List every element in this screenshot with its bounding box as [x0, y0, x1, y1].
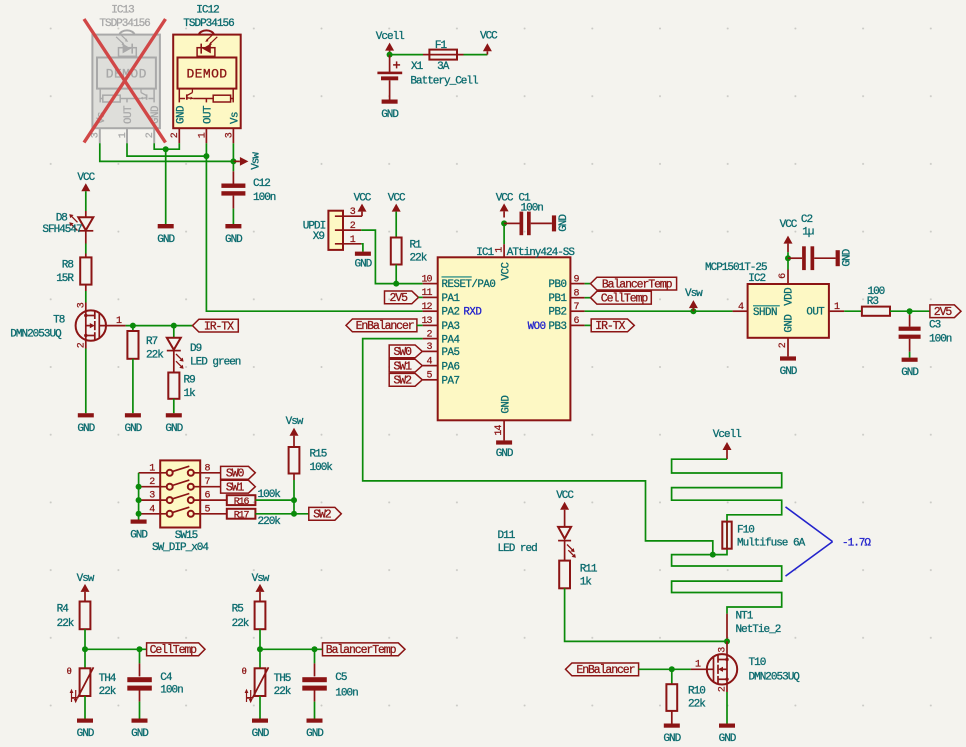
thermistor TH4 22k	[67, 667, 117, 703]
svg-text:Vsw: Vsw	[77, 573, 95, 585]
svg-text:CellTemp: CellTemp	[601, 293, 649, 306]
svg-text:GND: GND	[500, 396, 512, 414]
svg-text:GND: GND	[77, 728, 95, 740]
svg-text:22k: 22k	[146, 350, 164, 362]
svg-text:1k: 1k	[184, 388, 197, 400]
svg-text:GND: GND	[719, 733, 737, 745]
svg-text:TH4: TH4	[99, 673, 117, 685]
junction C3	[907, 308, 913, 314]
resistor R10 22k	[666, 684, 706, 711]
svg-text:GND: GND	[131, 728, 149, 740]
svg-text:PA6: PA6	[442, 361, 460, 373]
SW15 pole 2-7	[139, 477, 221, 490]
ground (R9)	[165, 413, 183, 435]
DNP red cross over IC13	[84, 19, 166, 143]
junction TH4	[82, 646, 88, 652]
ground (R7)	[124, 413, 142, 435]
svg-text:TSDP34156: TSDP34156	[99, 18, 150, 30]
svg-text:C4: C4	[160, 672, 173, 684]
svg-text:PB2: PB2	[549, 307, 567, 319]
junction R7 tap	[130, 323, 136, 329]
svg-text:X9: X9	[313, 231, 325, 243]
resistor R8 15R	[56, 257, 91, 284]
svg-text:1k: 1k	[580, 576, 593, 588]
svg-text:IC13: IC13	[111, 5, 134, 17]
IC2 GND pin 2	[778, 338, 789, 357]
IC IC1 ATtiny424-SS body	[438, 247, 576, 421]
svg-text:NT1: NT1	[736, 611, 754, 623]
svg-text:PA3: PA3	[442, 321, 460, 333]
IC1 pin 11 PA1	[421, 288, 459, 305]
svg-text:SHDN: SHDN	[753, 307, 777, 319]
wire C12 bottom	[232, 196, 234, 209]
svg-text:-1.7Ω: -1.7Ω	[842, 537, 871, 549]
svg-text:CellTemp: CellTemp	[150, 644, 198, 657]
junction C5	[312, 646, 318, 652]
wire SW15 left bus to ground	[138, 473, 140, 520]
svg-text:NetTie_2: NetTie_2	[736, 624, 781, 636]
wire GND drop	[165, 149, 167, 224]
wire IC13 pin3 to Vsw (Vs net)	[100, 143, 234, 161]
IC12 pin 1 OUT	[205, 128, 207, 143]
wire R15 down the bus	[293, 474, 295, 481]
junction R1 bottom	[393, 281, 399, 287]
ground (UPDI)	[354, 252, 372, 271]
svg-text:2V5: 2V5	[389, 292, 408, 305]
wire OUT to R3	[844, 310, 862, 312]
svg-text:IC12: IC12	[196, 5, 219, 17]
wire R10 drop	[671, 669, 673, 684]
svg-text:VCC: VCC	[556, 490, 574, 502]
transistor T10 DMN2053UQ	[691, 641, 800, 692]
capacitor C3 100n	[899, 320, 952, 346]
svg-text:RXD: RXD	[463, 307, 481, 319]
svg-text:SW1: SW1	[226, 482, 245, 495]
svg-text:R3: R3	[867, 296, 879, 308]
IC2 SHDN pin 4	[733, 302, 748, 313]
junction Vcell	[387, 52, 393, 58]
svg-text:BalancerTemp: BalancerTemp	[602, 278, 673, 291]
svg-text:SW0: SW0	[393, 346, 412, 359]
svg-text:Vsw: Vsw	[252, 573, 270, 585]
svg-text:SW15: SW15	[175, 530, 198, 542]
resistor R5 22k	[232, 602, 266, 630]
junction R10 tap	[669, 666, 675, 672]
power symbol VCC (D11)	[556, 490, 574, 527]
resistor R9 1k	[168, 373, 196, 400]
svg-text:11: 11	[421, 288, 432, 299]
ground (left of C12)	[157, 224, 175, 246]
transistor T8 DMN2053UQ	[10, 302, 125, 348]
wire R7 drop	[132, 326, 134, 331]
resistor R11 1k	[559, 561, 598, 589]
ground (C1, sideways)	[552, 214, 570, 232]
wire OUT net down to PA2 row	[206, 143, 422, 311]
junction C1	[501, 220, 507, 226]
svg-text:GND: GND	[354, 259, 372, 271]
svg-text:IC2: IC2	[748, 273, 765, 285]
wire R9 to ground	[173, 399, 175, 413]
power symbol Vcell (balancer)	[713, 429, 741, 459]
wire R5 to BalancerTemp node	[259, 629, 261, 649]
svg-text:VCC: VCC	[354, 193, 372, 205]
svg-text:SFH4547: SFH4547	[42, 224, 82, 236]
global label SW2 (PA7)	[389, 373, 422, 387]
global label IR-TX (PB3)	[585, 319, 635, 333]
svg-text:R8: R8	[62, 259, 74, 271]
junction Vsw on PB2 net	[690, 308, 696, 314]
wire TH4 top	[84, 649, 86, 668]
svg-text:PA5: PA5	[442, 347, 460, 359]
resistor R1 22k	[391, 238, 428, 265]
svg-text:GND: GND	[901, 367, 919, 379]
svg-text:R9: R9	[184, 375, 196, 387]
IC1 pin 8 PB1	[549, 289, 585, 306]
IC IC13 TSDP34156 (DNP, greyed)	[91, 5, 163, 144]
power symbol Vsw (right-pointing)	[233, 152, 262, 170]
svg-text:GND: GND	[77, 423, 95, 435]
svg-text:PA2: PA2	[442, 307, 460, 319]
IC13 pin 1 OUT	[126, 128, 128, 143]
power symbol VCC (UPDI pin3)	[354, 193, 372, 217]
svg-text:LED green: LED green	[190, 356, 241, 368]
ground (IC2)	[780, 356, 798, 378]
power symbol Vsw (R15)	[286, 416, 304, 447]
svg-text:GND: GND	[663, 733, 681, 745]
svg-text:SW0: SW0	[226, 468, 245, 481]
svg-text:1µ: 1µ	[802, 227, 814, 239]
junction OUT net	[203, 153, 209, 159]
LED D9 green	[167, 338, 241, 369]
IC2 OUT pin 1	[829, 302, 844, 313]
capacitor C2 1u	[788, 214, 836, 270]
wire R7 to ground	[132, 359, 134, 413]
svg-text:22k: 22k	[232, 618, 250, 630]
global label SW2 (R17)	[309, 507, 342, 521]
IC IC2 MCP1501T-25 body	[705, 262, 829, 338]
global label 2V5 (PA1)	[385, 291, 423, 305]
svg-text:10: 10	[421, 274, 432, 285]
IC1 pin 2 PA4	[423, 329, 460, 346]
power symbol VCC (above D8)	[77, 172, 95, 191]
wire PA4 feed to balancer	[363, 339, 713, 555]
svg-text:VDD: VDD	[784, 288, 796, 306]
svg-text:GND: GND	[157, 234, 175, 246]
svg-text:VCC: VCC	[500, 262, 512, 281]
svg-text:Vcell: Vcell	[376, 31, 404, 43]
svg-text:GND: GND	[306, 728, 324, 740]
wire R17 to SW2	[255, 513, 308, 515]
svg-text:F1: F1	[435, 40, 448, 52]
global label CellTemp (PB1)	[585, 291, 652, 305]
wire C4 to ground	[139, 689, 141, 702]
svg-text:22k: 22k	[99, 686, 117, 698]
capacitor C1 100n	[504, 193, 552, 236]
svg-text:PA4: PA4	[442, 334, 460, 346]
thermistor TH5 22k	[242, 667, 292, 703]
IC1 VCC pin 1	[503, 223, 505, 257]
ground (C5)	[306, 719, 324, 741]
svg-text:R5: R5	[232, 604, 244, 616]
svg-text:LED red: LED red	[498, 543, 538, 555]
global label EnBalancer (T10)	[566, 663, 639, 677]
global label EnBalancer (PA3)	[346, 319, 423, 333]
wire D9 drop	[173, 326, 175, 338]
global label SW0 (DIP)	[221, 466, 256, 480]
resistor R7 22k	[127, 331, 164, 362]
power symbol VCC (R1)	[388, 193, 406, 212]
svg-text:PB3: PB3	[549, 321, 567, 333]
ground (T10)	[719, 724, 737, 746]
IC1 GND pin 14	[494, 420, 505, 440]
svg-text:C3: C3	[929, 320, 941, 332]
svg-text:220k: 220k	[258, 516, 282, 528]
wire C12 top	[232, 161, 234, 171]
svg-text:C2: C2	[801, 214, 813, 226]
svg-text:GND: GND	[124, 423, 142, 435]
svg-text:TSDP34156: TSDP34156	[183, 18, 234, 30]
wire EnBalancer to T10 gate	[639, 668, 691, 670]
global label BalancerTemp (PB0)	[585, 277, 677, 291]
svg-text:GND: GND	[381, 109, 399, 121]
svg-text:Vs: Vs	[229, 112, 241, 124]
svg-text:F10: F10	[737, 524, 754, 536]
svg-text:GND: GND	[252, 728, 270, 740]
ground (SW15)	[130, 520, 148, 542]
connector X9 UPDI	[303, 207, 362, 250]
power symbol Vcell (battery)	[376, 31, 404, 54]
svg-text:GND: GND	[780, 366, 798, 378]
svg-text:θ: θ	[242, 667, 247, 677]
wire BalancerTemp node	[260, 648, 323, 650]
junction TH5	[257, 646, 263, 652]
ground (C4)	[131, 719, 149, 741]
svg-text:C12: C12	[253, 178, 270, 190]
svg-text:DEMOD: DEMOD	[186, 67, 227, 82]
svg-text:R11: R11	[580, 564, 598, 576]
wire D8 to R8	[85, 231, 87, 258]
power symbol VCC (IC1)	[496, 193, 514, 218]
resistor R4 22k	[57, 602, 91, 630]
global label BalancerTemp (divider)	[323, 643, 406, 657]
LED D11 red	[498, 527, 576, 558]
wire balancer meander resistor	[672, 459, 782, 614]
svg-text:θ: θ	[67, 667, 72, 677]
svg-text:OUT: OUT	[806, 307, 825, 319]
junction C4	[137, 646, 143, 652]
svg-text:PB0: PB0	[549, 279, 567, 291]
IC1 pin 9 PB0	[549, 274, 585, 291]
svg-text:R10: R10	[688, 686, 705, 698]
switch SW15 SW_DIP_x04 body	[152, 460, 209, 554]
svg-text:Vsw: Vsw	[685, 288, 703, 300]
junction R17/SW2	[291, 511, 297, 517]
svg-text:2V5: 2V5	[934, 306, 953, 319]
wire R16 to bus	[255, 499, 294, 501]
svg-text:SW2: SW2	[393, 375, 412, 388]
wire D11 to R11	[564, 541, 566, 561]
capacitor C4 100n	[127, 672, 183, 697]
ground (C2, sideways)	[836, 248, 854, 266]
svg-text:Vsw: Vsw	[286, 416, 304, 428]
svg-text:GND: GND	[558, 214, 570, 232]
svg-text:22k: 22k	[688, 698, 706, 710]
svg-text:GND: GND	[165, 423, 183, 435]
wire D9 to R9	[173, 351, 175, 373]
wire PB2 to IC2 SHDN	[585, 310, 733, 312]
junction D9 tap	[171, 323, 177, 329]
svg-text:VCC: VCC	[77, 172, 95, 184]
fuse F10 Multifuse 6A	[722, 522, 805, 550]
wire T8 source to ground	[85, 349, 87, 414]
power symbol Vsw (R4)	[77, 573, 95, 602]
svg-text:WO0: WO0	[528, 321, 546, 333]
svg-text:EnBalancer: EnBalancer	[576, 664, 634, 677]
IC1 pin 10 RESET/PA0	[421, 274, 495, 291]
battery X1 Battery_Cell	[377, 55, 478, 100]
svg-text:RESET/PA0: RESET/PA0	[442, 279, 496, 291]
global label SW1 (PA6)	[389, 359, 422, 373]
svg-text:IR-TX: IR-TX	[595, 320, 625, 333]
wire R4 to CellTemp node	[84, 629, 86, 649]
ground (TH4)	[77, 719, 95, 741]
svg-text:14: 14	[494, 425, 505, 436]
wire battery to fuse	[390, 54, 423, 56]
power symbol VCC (battery right)	[480, 31, 498, 55]
annotation -1.7ohm (blue bracket)	[786, 507, 872, 576]
power symbol Vsw (R5)	[252, 573, 270, 602]
global label SW0 (PA5)	[389, 345, 422, 359]
svg-text:Vcell: Vcell	[713, 429, 741, 441]
svg-text:R17: R17	[234, 511, 250, 522]
svg-text:SW1: SW1	[393, 360, 412, 373]
global label SW1 (DIP)	[221, 480, 256, 494]
IC12 pin 3 Vs	[232, 128, 234, 143]
junction GND net	[163, 146, 169, 152]
wire UPDI pin1 to ground	[361, 244, 363, 252]
ground (TH5)	[252, 719, 270, 741]
svg-text:GND: GND	[842, 248, 854, 266]
svg-text:VCC: VCC	[480, 31, 498, 43]
svg-text:SW2: SW2	[313, 509, 332, 522]
svg-text:PA7: PA7	[442, 376, 460, 388]
svg-text:100n: 100n	[521, 202, 544, 214]
wire T10 source to ground	[726, 692, 728, 724]
junction T10 drain	[724, 638, 730, 644]
wire TH4 to ground	[84, 696, 86, 719]
svg-text:GND: GND	[496, 448, 514, 460]
wire IC12 pin3 down	[232, 143, 234, 161]
svg-text:PA1: PA1	[442, 293, 460, 305]
ground (C3)	[901, 358, 919, 380]
global label CellTemp (divider)	[147, 643, 205, 657]
svg-text:IC1: IC1	[476, 247, 494, 259]
svg-text:VCC: VCC	[388, 193, 406, 205]
junction Vs net	[230, 158, 236, 164]
IC1 pin 7 PB2	[549, 302, 585, 319]
IC1 pin 5 PA7	[423, 371, 460, 388]
svg-text:OUT: OUT	[202, 105, 214, 124]
IC1 pin 4 PA6	[423, 356, 460, 373]
svg-text:X1: X1	[411, 61, 424, 73]
svg-text:3A: 3A	[437, 61, 450, 73]
SW15 pole 4-5	[139, 504, 227, 517]
svg-text:IR-TX: IR-TX	[204, 320, 234, 333]
svg-text:Multifuse 6A: Multifuse 6A	[737, 538, 806, 550]
fuse F1 3A	[423, 40, 464, 73]
LED D8 SFH4547	[42, 212, 93, 236]
svg-text:R7: R7	[146, 336, 158, 348]
wire C5 top	[314, 649, 316, 663]
svg-text:15R: 15R	[56, 273, 74, 285]
IC1 pin 13 PA3	[421, 316, 459, 333]
wire R3 to 2V5	[890, 310, 930, 312]
svg-text:PB1: PB1	[549, 293, 567, 305]
svg-text:Battery_Cell: Battery_Cell	[410, 76, 478, 88]
svg-text:100n: 100n	[929, 334, 952, 346]
ground (under C12)	[225, 224, 243, 246]
wire R8 to T8 drain	[85, 285, 87, 303]
IC13 pin 2 GND	[153, 128, 155, 143]
svg-text:DMN2053UQ: DMN2053UQ	[10, 329, 62, 341]
wire C3 top	[909, 311, 911, 315]
svg-text:TH5: TH5	[274, 673, 291, 685]
wire VCC to D8	[85, 191, 87, 217]
svg-text:22k: 22k	[57, 618, 75, 630]
svg-text:BalancerTemp: BalancerTemp	[326, 644, 397, 657]
wire C3 bottom	[909, 339, 911, 352]
junction bus row2	[136, 484, 142, 490]
svg-text:22k: 22k	[410, 253, 428, 265]
svg-text:D9: D9	[190, 343, 202, 355]
svg-text:100n: 100n	[253, 192, 276, 204]
svg-text:12: 12	[421, 302, 432, 313]
junction bus row4	[136, 511, 142, 517]
power symbol VCC (IC2 VDD)	[780, 219, 798, 258]
IC1 pin 12 PA2	[421, 302, 481, 319]
svg-text:13: 13	[421, 316, 432, 327]
wire IC13 pin2 to IC12 pin2 (GND net)	[154, 143, 179, 149]
svg-text:100n: 100n	[335, 688, 358, 700]
svg-text:D8: D8	[56, 212, 68, 224]
ground (IC1)	[496, 440, 514, 460]
svg-text:100k: 100k	[310, 462, 334, 474]
junction meander feed	[710, 552, 716, 558]
wire R10 to ground	[671, 711, 673, 724]
IC13 pin 3 Vs	[99, 128, 101, 143]
IC1 pin 3 PA5	[423, 342, 460, 359]
svg-text:EnBalancer: EnBalancer	[356, 320, 414, 333]
net tie NT1 NetTie_2	[727, 611, 781, 642]
svg-text:R16: R16	[234, 497, 250, 508]
ground (under battery)	[381, 100, 399, 122]
svg-text:R15: R15	[310, 449, 327, 461]
IC IC12 TSDP34156 body	[170, 5, 241, 144]
wire C4 top	[139, 649, 141, 663]
resistor R3 100	[862, 286, 890, 316]
svg-text:C5: C5	[335, 672, 347, 684]
IC12 pin 2 GND	[178, 128, 180, 143]
wire C5 to ground	[314, 689, 316, 702]
IC2 VDD pin 6	[778, 258, 789, 284]
svg-text:R1: R1	[410, 239, 423, 251]
wire IC13 pin1 to IC12 pin1 (OUT net)	[127, 143, 206, 156]
wire VCC to R1	[395, 212, 397, 238]
ground (T8 source)	[77, 413, 95, 435]
resistor R15 100k	[289, 447, 334, 474]
svg-text:GND: GND	[784, 315, 796, 333]
ground (R10)	[663, 724, 681, 746]
